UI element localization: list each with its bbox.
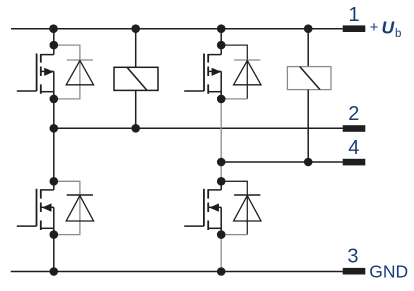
transistor Q1 (upper left MOSFET) — [17, 54, 54, 94]
wire relay K1 top lead — [135, 29, 137, 68]
node Q3 drain junction — [50, 177, 59, 186]
pin 4 terminal bar — [343, 159, 366, 166]
node Q2 drain junction — [217, 41, 226, 50]
node rail4 / right branch — [217, 158, 226, 167]
node Q1 source junction — [50, 95, 59, 104]
wire relay K1 bottom lead — [135, 90, 137, 128]
transistor Q3 (lower left MOSFET) — [17, 189, 54, 230]
diode D2 (body diode of Q2) — [221, 45, 261, 99]
svg-text:GND: GND — [369, 261, 408, 281]
pin 4 label — [348, 137, 359, 159]
pin 3 label — [347, 246, 358, 268]
wire rail pin4 — [221, 161, 343, 163]
node top rail / right branch — [217, 24, 226, 33]
wire left branch upper (drain Q1) — [53, 29, 55, 55]
diode D4 (body diode of Q4) — [221, 181, 261, 234]
relay coil K2 (load, right, gray box) — [287, 67, 331, 90]
node top rail / relay K1 — [131, 24, 140, 33]
svg-text:b: b — [395, 28, 401, 40]
wire right branch crossing rail 2 to rail 4 (gray) — [220, 99, 222, 181]
wire top rail +Ub — [11, 28, 343, 30]
wire right branch to bottom rail (gray) — [220, 235, 222, 272]
svg-text:U: U — [382, 18, 395, 38]
pin 1 label — [348, 4, 359, 26]
svg-text:+: + — [370, 19, 379, 36]
wire right branch rail4 to Q4 drain — [220, 181, 222, 190]
net label +Ub — [370, 18, 402, 40]
node top rail / left branch — [49, 24, 58, 33]
wire right branch Q4 source down — [220, 207, 222, 234]
pin 2 terminal bar — [343, 125, 366, 132]
node Q1 drain junction — [50, 41, 59, 50]
wire bottom rail GND — [11, 271, 343, 273]
wire left branch rail 2 to Q3 drain — [53, 128, 55, 190]
wire rail pin2 — [54, 127, 343, 129]
pin 2 label — [348, 103, 359, 125]
node Q2 source junction — [217, 95, 226, 104]
pin 3 terminal bar — [343, 268, 366, 275]
diode D1 (body diode of Q1, gray loop) — [54, 45, 94, 99]
svg-text:4: 4 — [348, 137, 359, 159]
node top rail / relay K2 — [304, 24, 313, 33]
node bottom rail / left branch — [50, 267, 59, 276]
pin 1 terminal bar — [343, 25, 366, 32]
svg-text:3: 3 — [347, 246, 358, 268]
wire right branch Q2 source down — [220, 71, 222, 99]
svg-text:2: 2 — [348, 103, 359, 125]
svg-text:1: 1 — [348, 4, 359, 26]
node Q4 source junction — [217, 230, 226, 239]
node bottom rail / right branch — [217, 267, 226, 276]
wire relay K2 top lead — [307, 29, 309, 67]
node rail2 / relay K1 — [131, 124, 140, 133]
transistor Q4 (lower right MOSFET) — [184, 189, 221, 230]
node Q3 source junction — [50, 230, 59, 239]
relay coil K1 (load, left) — [114, 67, 158, 90]
node rail4 / relay K2 — [304, 158, 313, 167]
wire left branch Q3 source to bottom rail — [53, 207, 55, 271]
transistor Q2 (upper right MOSFET) — [184, 54, 221, 94]
wire left branch Q1 source to rail 2 — [53, 71, 55, 128]
wire right branch upper (drain Q2) — [220, 29, 222, 55]
diode D3 (body diode of Q3, gray loop) — [54, 181, 94, 234]
node rail2 / left branch — [50, 124, 59, 133]
net label GND — [369, 261, 408, 281]
node Q4 drain junction — [217, 177, 226, 186]
wire relay K2 bottom lead — [307, 90, 309, 162]
